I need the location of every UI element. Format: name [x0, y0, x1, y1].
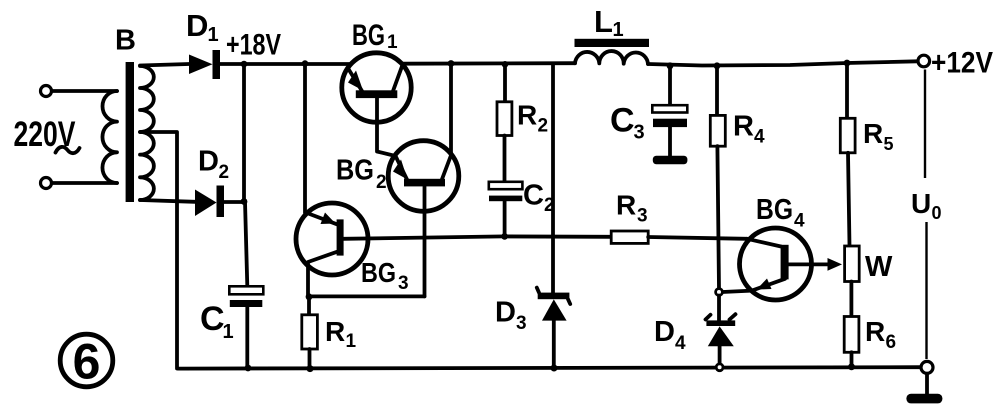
svg-text:3: 3	[634, 122, 645, 144]
svg-text:6: 6	[886, 332, 897, 353]
svg-text:BG: BG	[361, 257, 396, 288]
wire BG3 base to R3 (with C2 tap)	[344, 236, 611, 238]
resistor R4	[710, 66, 765, 289]
node R1 bottom junction	[307, 365, 314, 372]
node BG3 emitter branch junction	[302, 60, 309, 67]
capacitor C2	[489, 180, 555, 237]
wire top rail right (L1 to +12V)	[648, 61, 918, 65]
wire secondary top lead	[140, 64, 189, 66]
transistor BG4	[722, 194, 842, 300]
svg-text:5: 5	[884, 134, 894, 154]
svg-text:U: U	[911, 188, 931, 219]
svg-text:1: 1	[346, 331, 357, 352]
svg-text:BG: BG	[352, 19, 385, 52]
svg-text:BG: BG	[756, 194, 793, 226]
figure number 6	[60, 334, 113, 390]
svg-text:B: B	[115, 25, 136, 57]
wire transformer center tap down to bottom rail	[141, 132, 177, 369]
node D2 junction	[241, 198, 248, 205]
label 220V	[14, 115, 80, 154]
svg-text:R: R	[616, 190, 636, 221]
node R2 top junction	[502, 61, 509, 68]
svg-text:W: W	[865, 251, 893, 283]
potentiometer W	[845, 246, 893, 283]
svg-text:R: R	[733, 111, 754, 143]
svg-text:3: 3	[637, 206, 648, 227]
wire bottom rail	[178, 367, 921, 368]
node BG4 emitter junction	[716, 289, 723, 296]
node C2 junction	[501, 233, 508, 240]
diode D2	[195, 146, 242, 218]
svg-text:4: 4	[794, 211, 805, 232]
terminal +12V	[918, 47, 993, 80]
svg-text:3: 3	[516, 313, 527, 334]
capacitor C1	[200, 202, 263, 369]
resistor R6	[844, 282, 896, 368]
svg-text:R: R	[325, 316, 345, 347]
svg-text:2: 2	[219, 162, 230, 183]
svg-text:R: R	[517, 100, 537, 131]
svg-text:4: 4	[675, 333, 686, 354]
svg-text:6: 6	[73, 334, 101, 390]
svg-text:2: 2	[376, 172, 387, 193]
terminal output bottom	[921, 361, 933, 373]
svg-text:1: 1	[208, 24, 219, 46]
node R4 top junction	[714, 62, 721, 69]
svg-text:+18V: +18V	[226, 29, 281, 62]
node C3 top junction	[667, 62, 674, 69]
svg-text:C: C	[200, 300, 225, 338]
transistor BG3	[296, 203, 409, 297]
wire switching node down to D3	[551, 65, 555, 293]
wire rectifier output vertical (rail to D2 node)	[242, 64, 246, 202]
node R1 junction	[306, 293, 313, 300]
inductor L1	[575, 4, 650, 64]
svg-text:1: 1	[223, 321, 234, 343]
resistor R2	[497, 64, 548, 182]
zener diode D3	[495, 288, 570, 369]
wire top rail left (D1 to BG1)	[219, 62, 351, 66]
transistor BG2	[336, 141, 459, 297]
svg-text:D: D	[495, 297, 516, 329]
node R6 bottom junction	[848, 363, 855, 370]
svg-text:0: 0	[932, 203, 942, 223]
svg-text:BG: BG	[336, 155, 374, 187]
zener diode D4	[654, 296, 736, 364]
svg-text:R: R	[863, 118, 883, 149]
wire +18V branch down to BG3 emitter	[303, 64, 307, 213]
ground	[906, 374, 942, 404]
node +18V junction	[241, 61, 248, 68]
svg-text:+12V: +12V	[931, 47, 993, 80]
svg-text:D: D	[198, 146, 219, 178]
resistor R5	[840, 63, 893, 246]
svg-text:D: D	[654, 316, 675, 348]
svg-text:2: 2	[538, 116, 549, 137]
svg-text:3: 3	[398, 273, 409, 294]
node C1 bottom junction	[245, 365, 252, 372]
node D3 bottom junction	[551, 365, 558, 372]
svg-text:C: C	[523, 180, 544, 212]
wire top rail mid (BG1 to L1)	[402, 61, 575, 65]
svg-text:1: 1	[387, 32, 398, 53]
node R5 top junction	[844, 60, 851, 67]
wire R3 to BG4 collector	[648, 237, 747, 239]
svg-text:R: R	[865, 316, 885, 347]
svg-text:1: 1	[613, 19, 624, 41]
node U0 dashed measure line	[911, 70, 942, 360]
diode D1	[186, 8, 220, 79]
wire secondary bottom lead	[140, 200, 195, 202]
svg-text:L: L	[594, 4, 613, 39]
svg-text:C: C	[610, 102, 635, 140]
resistor R3	[611, 190, 648, 244]
node D4 anode (open)	[716, 364, 723, 371]
svg-text:4: 4	[754, 127, 765, 148]
svg-text:D: D	[186, 8, 208, 43]
resistor R1	[302, 297, 357, 369]
wire BG2 collector to top rail	[449, 64, 453, 154]
node BG2 collector junction	[448, 60, 455, 67]
transformer B	[41, 25, 154, 203]
transistor BG1	[342, 19, 411, 156]
capacitor C3 (with ground bar)	[610, 66, 687, 165]
wire BG2 base to R1 node	[309, 294, 425, 298]
